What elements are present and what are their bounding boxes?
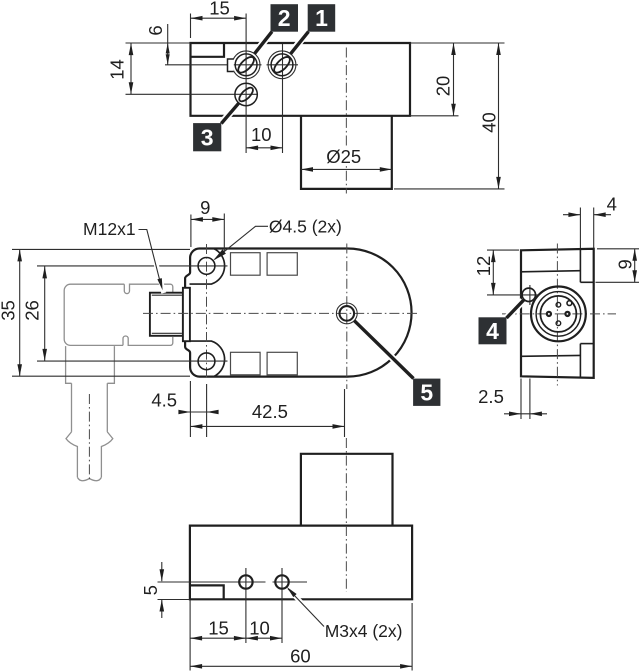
label box 2 <box>271 4 299 32</box>
svg-text:15: 15 <box>209 0 230 19</box>
svg-text:4: 4 <box>486 318 499 344</box>
M12 plug chamfer lines <box>152 294 182 296</box>
side view top-right step vertical <box>579 249 581 282</box>
svg-text:M3x4 (2x): M3x4 (2x) <box>325 621 403 641</box>
sensing slot D <box>267 352 297 375</box>
TOP-VIEW <box>107 0 505 194</box>
pin top <box>556 302 561 307</box>
mounting hole top <box>198 258 215 275</box>
svg-text:5: 5 <box>140 585 161 595</box>
screw 2 outer circle <box>232 51 260 79</box>
dim 35 extension top <box>12 248 190 250</box>
mid view body outline <box>185 249 411 377</box>
pin bottom <box>556 321 561 326</box>
dim 9 extension right <box>223 214 225 252</box>
label box 4 <box>479 317 507 344</box>
dim 10 line <box>246 637 282 639</box>
dim 2.5 extension right <box>529 379 531 420</box>
crosshair bottom mounting hole / dim 26 extension <box>37 360 228 362</box>
extension line body left edge up (dim 15) <box>190 14 192 39</box>
svg-text:4: 4 <box>607 194 617 215</box>
bottom view notch <box>190 585 224 599</box>
ear boss top <box>190 249 225 284</box>
svg-text:10: 10 <box>249 618 270 639</box>
top view cylinder (barrel) <box>301 116 392 189</box>
D4.5 leader <box>215 226 268 259</box>
M3 hole 2 <box>275 575 288 588</box>
bottom view barrel centerline <box>345 438 347 592</box>
dim 42.5 line <box>190 425 344 427</box>
svg-text:6: 6 <box>145 25 166 35</box>
dim 9 line <box>191 218 224 220</box>
cable break symbol <box>66 432 113 477</box>
leader label 3 <box>221 103 238 123</box>
crosshair LED hole horizontal <box>487 294 539 296</box>
cable boot upper <box>66 346 115 383</box>
dim D25 text <box>326 147 362 164</box>
extension line screw2 centerline (dims 15,10) <box>245 14 247 154</box>
center hole inner circle <box>340 306 355 321</box>
cable centerline <box>88 394 90 481</box>
dim 4 line left part <box>563 214 580 216</box>
svg-text:3: 3 <box>201 124 214 150</box>
screw 2 inner circle <box>235 54 257 76</box>
center hole outer circle <box>336 303 357 324</box>
svg-text:60: 60 <box>290 646 311 667</box>
dim 42.5 extension right (hole centerline down) <box>344 389 346 437</box>
screw 1 inner circle <box>271 54 293 76</box>
M12x1 leader <box>147 231 164 294</box>
dim 26 line <box>44 266 46 361</box>
center hole vertical centerline <box>346 244 348 390</box>
dim 35 extension bottom <box>12 375 190 377</box>
ear boss bottom <box>190 341 225 376</box>
svg-text:2: 2 <box>278 5 291 31</box>
dim 2.5 extension left <box>520 379 522 420</box>
MID-VIEW <box>0 197 440 481</box>
dim 14 line <box>130 43 132 94</box>
side view body outline <box>521 249 594 378</box>
dim 15 line <box>191 17 247 19</box>
dim 12 line <box>492 250 494 295</box>
svg-text:42.5: 42.5 <box>252 401 288 422</box>
crosshair holes horizontal left <box>158 581 266 583</box>
pin left <box>547 312 551 316</box>
dim 5 line lower <box>161 600 163 619</box>
extension body right edge down (dim 60) <box>411 603 413 671</box>
extension hole2 centerline vertical <box>281 568 283 643</box>
dim 20 line <box>453 43 455 116</box>
side view bottom-right step horizontal <box>580 343 593 345</box>
leader halo label 2 <box>256 32 272 53</box>
dim 4.5 extension right (ear centerline down) <box>206 384 208 437</box>
sensing slot C <box>231 352 261 375</box>
mid view horizontal centerline <box>143 312 419 314</box>
svg-text:4.5: 4.5 <box>151 390 177 411</box>
dim 40 line <box>498 43 500 189</box>
extension line body-top left (for dims 6,14) <box>126 42 191 44</box>
crosshair LED hole vertical <box>529 285 531 305</box>
crosshair screw 1 <box>267 64 299 66</box>
screw 3 slot <box>237 85 255 103</box>
centerline of barrel <box>345 48 347 194</box>
leader halo label 5 <box>356 322 413 378</box>
side view bottom-right step vertical <box>579 344 581 378</box>
svg-text:Ø25: Ø25 <box>326 146 361 167</box>
label box 1 <box>308 4 336 32</box>
SIDE-VIEW <box>473 194 639 420</box>
dim 5 extension bottom <box>158 599 190 601</box>
screw 3 circle <box>235 83 257 105</box>
svg-text:15: 15 <box>208 618 229 639</box>
mid view gray cordset connector body <box>64 284 124 345</box>
screw 2 clamp tab <box>228 59 234 72</box>
sensing slot A <box>231 253 261 276</box>
leader label 1 <box>291 32 309 54</box>
M12 plug flange <box>183 288 190 341</box>
connector inner circle <box>540 296 576 332</box>
screw 2 slot <box>236 54 257 75</box>
screw 1 outer circle <box>268 51 296 79</box>
svg-text:5: 5 <box>420 379 433 405</box>
dim 4 line right part <box>594 214 611 216</box>
extension line screw1 centerline (dim 10) <box>282 44 284 153</box>
M3 hole 1 <box>239 575 252 588</box>
dim 12 extension top <box>487 249 519 251</box>
svg-text:Ø4.5 (2x): Ø4.5 (2x) <box>269 217 342 237</box>
dim 15 line <box>190 637 246 639</box>
leader label 5 <box>354 321 413 379</box>
keyway dot <box>567 301 572 306</box>
side view top-right step horizontal <box>580 281 593 283</box>
extension line body bottom right (dim 20) <box>410 115 459 117</box>
svg-text:35: 35 <box>0 300 19 321</box>
sensing slot B <box>267 253 297 276</box>
svg-text:M12x1: M12x1 <box>83 219 136 239</box>
LED hole (item 4) <box>522 288 535 301</box>
cable end <box>77 477 101 480</box>
connector receptacle outer circle <box>531 287 586 342</box>
mounting hole bottom <box>198 353 215 370</box>
ears centerline vertical <box>206 244 208 378</box>
svg-text:2.5: 2.5 <box>478 386 504 407</box>
side view top internal edge <box>521 271 580 272</box>
svg-text:9: 9 <box>200 197 210 218</box>
dim 60 line <box>190 665 412 667</box>
svg-text:20: 20 <box>433 76 454 97</box>
pin right <box>565 312 569 316</box>
dim D25 line <box>301 168 392 170</box>
screw 1 slot <box>272 54 293 75</box>
connector middle circle <box>536 292 581 337</box>
dim 4.5 extension left (body edge down) <box>189 381 191 437</box>
svg-text:12: 12 <box>473 256 494 277</box>
BOTTOM-VIEW <box>140 438 412 671</box>
side view horizontal centerline <box>502 313 616 315</box>
crosshair holes horizontal right <box>273 581 308 583</box>
extension hole1 centerline vertical <box>245 568 247 643</box>
leader halo label 4 <box>508 301 524 317</box>
extension line screw3 row (for dim 14) <box>126 93 259 95</box>
crosshair top mounting hole / dim 26 extension <box>37 265 228 267</box>
bottom view cylinder (barrel) <box>301 454 393 526</box>
leader halo label 3 <box>221 105 238 124</box>
svg-text:10: 10 <box>251 124 272 145</box>
dim 35 line <box>19 249 21 376</box>
dim 5 line upper <box>161 562 163 581</box>
dim 4 extension left <box>579 208 581 249</box>
svg-text:26: 26 <box>22 300 43 321</box>
leader label 4 <box>507 300 525 318</box>
top view body outline <box>191 43 411 116</box>
extension body left edge down (dims 15,60) <box>189 600 191 671</box>
svg-text:40: 40 <box>479 112 500 133</box>
cordset bottom slot <box>123 336 173 345</box>
dim 2.5 line right part <box>530 413 547 415</box>
cable boot taper <box>72 383 108 432</box>
label box 3 <box>193 123 221 151</box>
dim 9 extension bottom <box>596 281 640 283</box>
top view notch <box>191 43 225 57</box>
svg-text:9: 9 <box>615 259 636 269</box>
dim 6 line <box>167 24 169 65</box>
dim 10 line <box>246 147 282 149</box>
dim 9 extension left (body edge up) <box>190 215 192 248</box>
svg-text:1: 1 <box>315 5 328 31</box>
extension line screws row (for dim 6) <box>165 64 262 66</box>
M12 plug body <box>150 293 183 336</box>
side view vertical centerline <box>556 244 558 386</box>
bottom view body outline <box>190 526 412 600</box>
dim 2.5 line left part <box>504 413 530 415</box>
dim 4.5 line <box>179 411 218 413</box>
leader label 2 <box>255 32 273 54</box>
svg-text:14: 14 <box>107 59 128 80</box>
M3x4 leader <box>294 595 326 628</box>
dim 9 extension top <box>597 248 639 250</box>
dim 9 line <box>634 249 636 282</box>
label box 5 <box>413 379 440 406</box>
cordset top slot <box>124 284 173 293</box>
dim 4 extension right <box>593 208 595 249</box>
side view bottom internal edge <box>521 354 580 357</box>
leader halo label 1 <box>292 32 308 53</box>
extension line barrel bottom (dim 40) <box>394 188 505 190</box>
extension line top right (dims 20,40) <box>410 42 505 44</box>
